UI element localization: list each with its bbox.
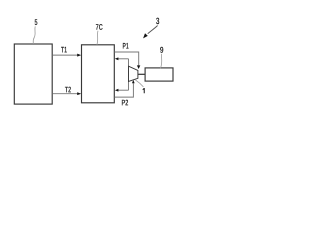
arrowhead 3 [143,33,148,38]
arrowhead return top [115,57,119,60]
label P1 [123,43,129,49]
label 5 [35,19,38,25]
label T1 [61,47,67,53]
label 7C [96,24,103,30]
label T2 [65,87,71,93]
arrowhead T2 [77,92,81,95]
label 1 [143,88,145,93]
return wire bottom [118,89,129,91]
label P2 [122,100,128,106]
block 7C [82,45,115,103]
leader from 5 [33,26,35,44]
label 9 [160,47,163,53]
arrow leader from 3 [148,26,158,34]
shaft wire [138,73,145,75]
leader from 7C [97,31,98,45]
vertical link wire [128,59,130,90]
wire T2 [52,93,78,95]
arrowhead return bottom [115,89,119,92]
leader from 9 [161,54,162,68]
turbine 1 [129,66,138,81]
return wire top [118,58,129,60]
box 9 [145,68,173,81]
wire T1 [52,54,78,56]
wire P2 [114,83,133,97]
block 5 [14,44,52,104]
label 3 [156,18,159,25]
arrowhead T1 [77,54,81,57]
leader from 1 [135,80,143,87]
arrowhead P2 up [132,80,135,83]
wire P1 [114,52,138,66]
arrowhead P1 down [137,65,140,69]
